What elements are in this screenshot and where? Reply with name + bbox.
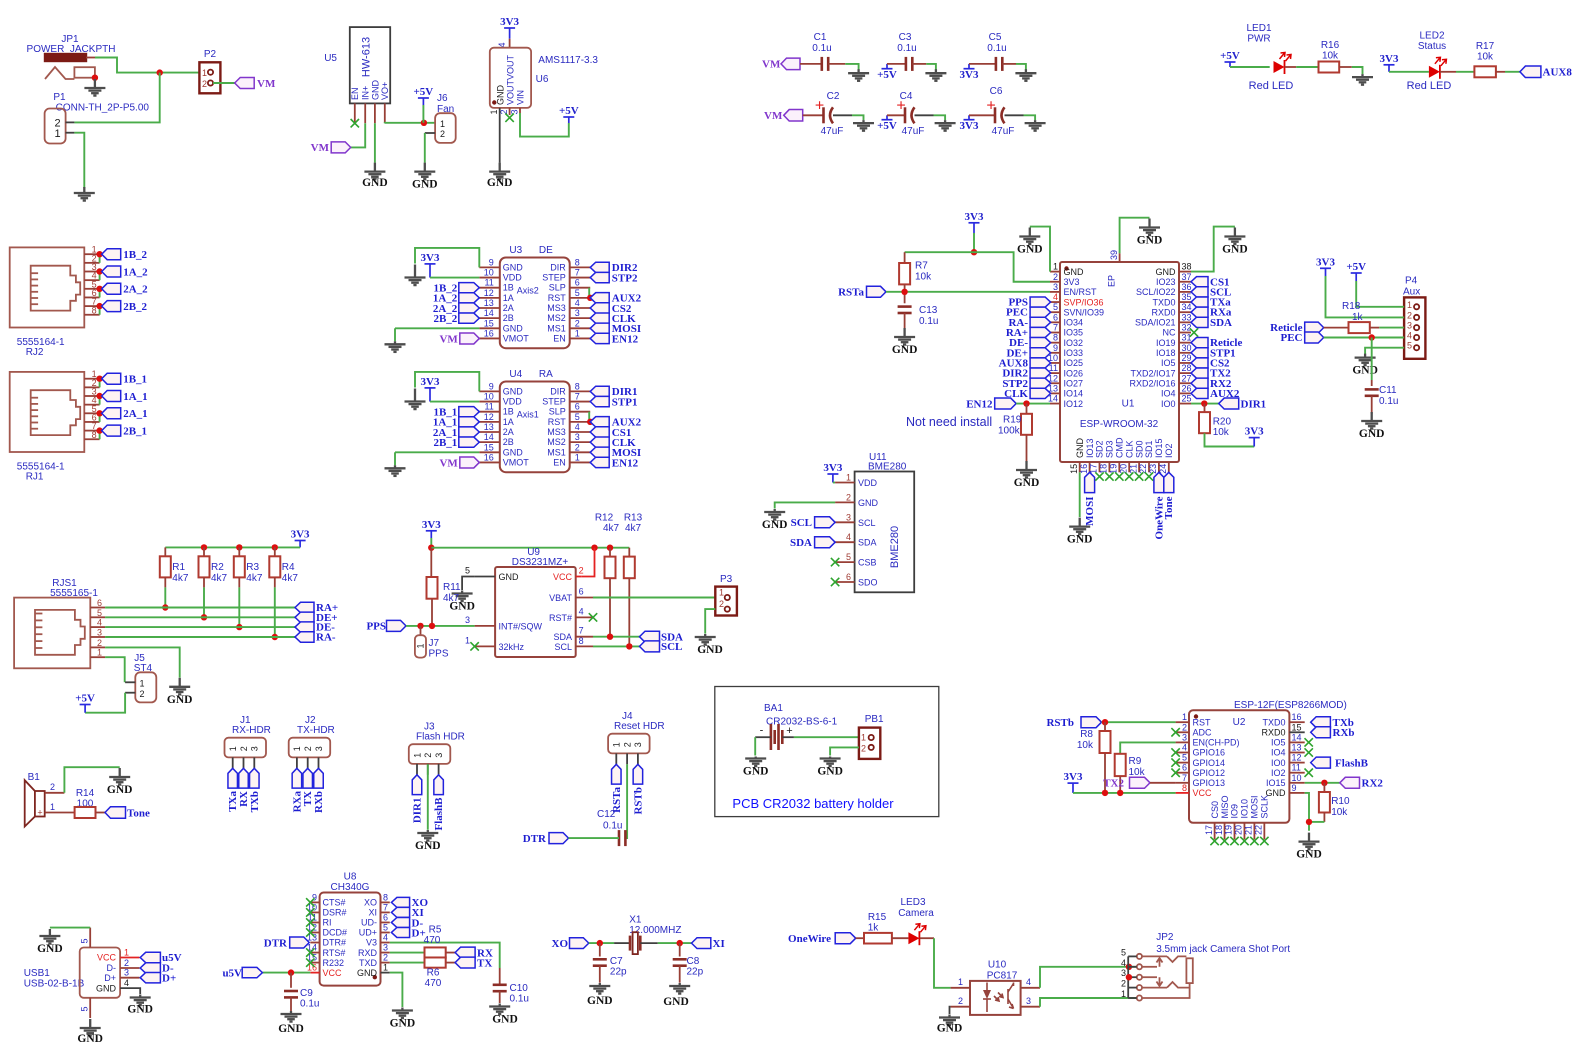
no-connect X on U1 pin 20 (1125, 472, 1133, 480)
svg-text:37: 37 (1182, 272, 1192, 282)
svg-text:CONN-TH_2P-P5.00: CONN-TH_2P-P5.00 (56, 103, 150, 114)
svg-text:1: 1 (719, 588, 724, 598)
svg-text:5: 5 (1407, 341, 1412, 351)
svg-text:4: 4 (1053, 292, 1058, 302)
junction RSTb R8 (1102, 719, 1108, 725)
svg-text:SD3: SD3 (1105, 440, 1115, 458)
svg-text:R4: R4 (282, 562, 295, 573)
svg-text:+5V: +5V (559, 105, 579, 117)
svg-text:7: 7 (575, 392, 580, 402)
svg-text:RSTb: RSTb (632, 787, 644, 815)
svg-text:R6: R6 (427, 968, 440, 979)
svg-text:15: 15 (1292, 722, 1302, 732)
net label TX at J2 (302, 768, 314, 806)
net label XO at U8 (391, 897, 428, 909)
wire J5 pin2 to +5V (85, 693, 125, 713)
junction JP1 switch (92, 75, 98, 81)
svg-text:9: 9 (489, 381, 494, 391)
svg-text:5: 5 (1121, 947, 1126, 957)
svg-text:27: 27 (1182, 373, 1192, 383)
ground C1 (848, 69, 869, 81)
svg-text:2A_1: 2A_1 (123, 408, 147, 420)
svg-text:22p: 22p (687, 967, 704, 978)
svg-text:GND: GND (167, 694, 193, 706)
no-connect X on U2 GPIO16 (1171, 748, 1179, 756)
svg-text:+: + (896, 97, 905, 114)
svg-text:+5V: +5V (75, 693, 95, 705)
svg-text:0.1u: 0.1u (1379, 396, 1398, 407)
svg-text:4: 4 (1026, 977, 1031, 987)
junction R9 3V3 (1117, 790, 1123, 796)
svg-text:10k: 10k (1331, 807, 1348, 818)
regulator module U5 HW-613 (324, 27, 390, 123)
IC U8 CH340G (307, 872, 390, 986)
net label DE+ at U1 (1006, 347, 1050, 359)
wire U3 SLP to RST (588, 288, 590, 298)
svg-text:VM: VM (311, 142, 330, 154)
net label 2A_1 (433, 427, 479, 439)
net label PPS at U1 (1008, 297, 1050, 309)
junction JP2 pin3 (1126, 974, 1132, 980)
svg-text:5: 5 (465, 566, 470, 576)
net label SDA at U1 (1191, 317, 1232, 329)
svg-text:1: 1 (97, 648, 102, 658)
svg-text:7: 7 (1182, 773, 1187, 783)
wire +5V to P4 pin1 (1356, 281, 1404, 307)
svg-text:2B: 2B (503, 313, 514, 323)
svg-text:X1: X1 (629, 915, 642, 926)
svg-text:22: 22 (1254, 825, 1264, 835)
net label D- at USB1 (140, 963, 174, 975)
ground U8 (392, 1008, 413, 1019)
ground B1 (109, 768, 130, 785)
net label STP2 at U1 (1002, 378, 1050, 390)
no-connect X on U5 EN (351, 119, 359, 127)
wire C3 to ground (926, 64, 936, 70)
svg-text:34: 34 (1182, 302, 1192, 312)
svg-text:RA-: RA- (316, 632, 336, 644)
net label STP2 at U3 (590, 272, 638, 284)
IC U9 DS3231MZ+ (465, 547, 593, 657)
wire 3V3 to U2 VCC (1073, 792, 1176, 794)
wire U1 pin38 GND to ground (1191, 227, 1235, 272)
ground U2 (1299, 833, 1320, 850)
svg-text:GND: GND (370, 80, 380, 101)
svg-text:3V3: 3V3 (1064, 771, 1083, 783)
svg-text:J7: J7 (429, 638, 440, 649)
svg-text:DIR1: DIR1 (1241, 398, 1267, 410)
resistor R8 10k (1077, 722, 1111, 793)
junction RJ2 pin 5 (96, 286, 102, 292)
power 3V3 at U4 (425, 388, 436, 402)
svg-text:SCL: SCL (554, 642, 572, 652)
svg-text:+5V: +5V (877, 120, 897, 132)
svg-text:GND: GND (937, 1023, 963, 1035)
optocoupler U10 PC817 (951, 960, 1040, 1015)
svg-text:EP: EP (1107, 275, 1117, 287)
svg-text:Tone: Tone (1163, 496, 1175, 519)
net label RA- at U1 (1008, 317, 1050, 329)
svg-text:7: 7 (383, 902, 388, 912)
no-connect X on U9 32kHz (470, 642, 478, 650)
svg-text:RSTb: RSTb (1046, 717, 1074, 729)
svg-text:VDD: VDD (503, 273, 523, 283)
wire U5 GND down (374, 123, 376, 162)
wire J6 pin2 to ground (424, 133, 426, 163)
wire P4 pin5 to ground (1365, 348, 1404, 354)
wire 3V3 to U4 VDD (430, 401, 479, 403)
connector J5 ST4 (125, 653, 156, 702)
svg-text:3: 3 (1407, 321, 1412, 331)
svg-text:3: 3 (1121, 968, 1126, 978)
resistor R18 1k (1324, 301, 1380, 333)
wire U4 SLP to RST (588, 412, 590, 422)
svg-text:3V3: 3V3 (1245, 426, 1264, 438)
net label RXb at J2 (313, 768, 325, 813)
net label SDA at U11 (790, 537, 835, 549)
ground U1 EP (1139, 219, 1160, 236)
wire J4 pin2 to C12 (625, 764, 627, 838)
connector RJ2 5555164-1 (10, 245, 100, 358)
svg-text:2: 2 (1182, 722, 1187, 732)
svg-text:PC817: PC817 (987, 971, 1018, 982)
svg-text:6: 6 (1182, 763, 1187, 773)
svg-text:IO19: IO19 (1156, 338, 1176, 348)
svg-text:1: 1 (612, 742, 622, 747)
svg-text:C5: C5 (989, 32, 1002, 43)
svg-text:D+: D+ (162, 972, 176, 984)
svg-text:IO14: IO14 (1064, 389, 1084, 399)
svg-text:SDO: SDO (858, 578, 878, 588)
svg-text:4: 4 (575, 422, 580, 432)
svg-text:3V3: 3V3 (422, 519, 441, 531)
net label CLK at U1 (1004, 388, 1050, 400)
svg-text:3V3: 3V3 (960, 69, 979, 81)
ground C2 (853, 120, 874, 131)
wire U6 VIN to +5V (520, 113, 569, 137)
svg-text:GND: GND (817, 766, 843, 778)
svg-text:IO5: IO5 (1161, 358, 1176, 368)
svg-text:4k7: 4k7 (246, 573, 263, 584)
svg-text:RXD: RXD (358, 948, 378, 958)
svg-text:2B_2: 2B_2 (123, 301, 147, 313)
svg-text:R5: R5 (429, 925, 442, 936)
svg-text:9: 9 (489, 257, 494, 267)
svg-text:12: 12 (484, 288, 494, 298)
svg-text:1A: 1A (503, 293, 514, 303)
svg-text:15: 15 (1069, 464, 1079, 474)
svg-text:U5: U5 (324, 53, 337, 64)
svg-text:1: 1 (861, 733, 866, 743)
svg-text:1A_1: 1A_1 (123, 391, 147, 403)
svg-text:TXD: TXD (359, 958, 378, 968)
no-connect X on U1 pin 21 (1135, 472, 1143, 480)
svg-text:Status: Status (1418, 41, 1446, 52)
svg-text:2: 2 (140, 689, 145, 699)
svg-text:VCC: VCC (323, 968, 343, 978)
svg-text:MISO: MISO (1220, 795, 1230, 818)
no-connect X on U2 pin 17 (1210, 837, 1218, 845)
resistor R15 1k (856, 912, 909, 944)
svg-text:TX2: TX2 (1103, 778, 1124, 790)
svg-text:EN: EN (350, 87, 360, 100)
power 3V3 at U11 (827, 474, 838, 483)
svg-text:R3: R3 (246, 562, 259, 573)
ground U6 (489, 163, 510, 180)
svg-text:2A: 2A (503, 303, 514, 313)
svg-text:PCB CR2032 battery holder: PCB CR2032 battery holder (732, 796, 894, 811)
svg-text:10k: 10k (1129, 767, 1146, 778)
junction RJ1 pin 5 (96, 410, 102, 416)
junction RJ2 pin 3 (96, 268, 102, 274)
svg-text:GND: GND (77, 1033, 103, 1045)
svg-text:EN(CH-PD): EN(CH-PD) (1193, 738, 1240, 748)
net label 1A_2 (433, 293, 479, 305)
svg-text:2B_1: 2B_1 (433, 437, 457, 449)
wire LED3 to U10 pin1 (934, 938, 951, 988)
svg-text:8: 8 (579, 636, 584, 646)
svg-text:ADC: ADC (1193, 728, 1213, 738)
svg-text:4k7: 4k7 (211, 573, 228, 584)
svg-text:0.1u: 0.1u (897, 43, 916, 54)
svg-text:29: 29 (1182, 353, 1192, 363)
svg-text:12: 12 (1292, 753, 1302, 763)
svg-text:30: 30 (1182, 343, 1192, 353)
svg-text:1k: 1k (868, 923, 880, 934)
svg-text:Camera: Camera (898, 908, 934, 919)
svg-text:Axis1: Axis1 (517, 410, 539, 420)
svg-text:17: 17 (1204, 825, 1214, 835)
svg-text:AUX8: AUX8 (1543, 67, 1573, 79)
svg-text:R12: R12 (595, 513, 614, 524)
svg-text:P4: P4 (1405, 276, 1418, 287)
svg-text:1: 1 (50, 802, 55, 812)
svg-text:0.1u: 0.1u (919, 316, 938, 327)
power 3V3 at C5 (964, 64, 975, 69)
junction VCC U9 (591, 545, 597, 551)
wire U5 VO+ to +5V and J6 pin1 (385, 122, 435, 124)
svg-text:32: 32 (1182, 323, 1192, 333)
net label u5V at U8 (222, 967, 262, 979)
svg-text:XO: XO (552, 938, 569, 950)
net label STP1 at U4 (590, 396, 637, 408)
svg-text:3V3: 3V3 (291, 529, 310, 541)
svg-text:IO25: IO25 (1064, 358, 1084, 368)
regulator U6 AMS1117-3.3 (489, 39, 598, 115)
ground U5 (364, 163, 385, 180)
svg-text:SCL: SCL (858, 518, 876, 528)
net label 2B_2 (102, 301, 148, 313)
junction 3V3 R4 (272, 544, 278, 550)
svg-text:IO9: IO9 (1230, 804, 1240, 819)
svg-text:Tone: Tone (127, 807, 150, 819)
net label TXa at U1 (1191, 297, 1231, 309)
svg-text:1: 1 (140, 679, 145, 689)
net label AUX8 (1520, 66, 1572, 79)
svg-text:3: 3 (124, 968, 129, 978)
svg-text:C2: C2 (827, 91, 840, 102)
net label XI at U8 (391, 907, 423, 919)
svg-text:1: 1 (292, 746, 302, 751)
net label 1B_1 (433, 407, 479, 419)
svg-text:SDA: SDA (553, 632, 572, 642)
svg-text:GND: GND (357, 968, 378, 978)
net label PEC at P4 (1281, 332, 1324, 344)
resistor R19 100k (998, 404, 1032, 461)
svg-text:31: 31 (1182, 333, 1192, 343)
svg-text:GND: GND (1137, 235, 1163, 247)
svg-text:Not need install: Not need install (906, 415, 992, 429)
svg-text:2: 2 (719, 599, 724, 609)
svg-text:LED2: LED2 (1419, 31, 1444, 42)
wire BA1 minus to ground (754, 737, 756, 755)
capacitor C3 (887, 32, 926, 71)
svg-text:1: 1 (575, 328, 580, 338)
svg-text:3: 3 (1053, 282, 1058, 292)
connector J2 TX-HDR (289, 715, 335, 768)
wire C4 to ground (934, 115, 946, 120)
svg-text:GND: GND (1222, 244, 1248, 256)
net label 1B_1 (102, 373, 147, 385)
wire R10 bottom to ground node (1309, 821, 1324, 823)
wire U3 GND pin15 to ground (395, 327, 479, 329)
svg-text:39: 39 (1109, 250, 1119, 260)
svg-text:+: + (986, 97, 995, 114)
svg-text:VBAT: VBAT (549, 593, 572, 603)
svg-text:2: 2 (124, 958, 129, 968)
svg-text:3: 3 (97, 628, 102, 638)
net label SCL at U9 (640, 641, 683, 653)
wire R18 to P4 pin3 (1379, 327, 1404, 329)
svg-text:1: 1 (1053, 262, 1058, 272)
wire U4 GND pin15 to ground (395, 451, 479, 453)
wire U5 IN+ to VM label (351, 123, 366, 147)
resistor R7 10k (899, 252, 932, 303)
no-connect X on U6 pin2 (505, 114, 513, 122)
wire U10 pin2 to ground (950, 1007, 951, 1014)
capacitor C12 (597, 809, 625, 846)
svg-text:EN12: EN12 (966, 398, 993, 410)
svg-text:C13: C13 (919, 305, 938, 316)
svg-text:14: 14 (1292, 732, 1302, 742)
svg-text:5: 5 (80, 1006, 90, 1011)
svg-text:13: 13 (1292, 743, 1302, 753)
svg-text:R14: R14 (76, 788, 95, 799)
svg-text:VM: VM (439, 333, 458, 345)
ground C10 (489, 1004, 510, 1015)
svg-text:SCL/IO22: SCL/IO22 (1136, 287, 1176, 297)
ground R19 (1016, 461, 1037, 478)
svg-text:TXD0: TXD0 (1262, 717, 1285, 727)
LED3 Camera (898, 897, 934, 945)
svg-text:DTR#: DTR# (323, 938, 347, 948)
net label RX at U8 (455, 947, 493, 959)
junction C9 VCC (288, 969, 294, 975)
net label CS2 at U3 (590, 303, 632, 315)
wire USB1 GND to ground (139, 988, 142, 994)
svg-text:4: 4 (579, 607, 584, 617)
net label D+ at U8 (391, 927, 425, 939)
resistor R9 10k (1115, 754, 1146, 793)
wire U8 V3 to C10 (390, 943, 500, 968)
svg-text:2: 2 (1121, 979, 1126, 989)
svg-text:GND: GND (362, 177, 388, 189)
ground U1 pin15 (1069, 518, 1090, 535)
svg-text:PWR: PWR (1247, 34, 1270, 45)
svg-text:RSTa: RSTa (838, 287, 864, 299)
net label RSTa at J4 (611, 764, 623, 813)
net label PPS (366, 620, 406, 632)
net label DE- (295, 622, 335, 634)
svg-text:R9: R9 (1129, 756, 1142, 767)
ground U3 pin15 (385, 341, 406, 352)
svg-text:R7: R7 (915, 261, 928, 272)
power 3V3 at R20 (1249, 438, 1260, 447)
svg-text:IO18: IO18 (1156, 348, 1176, 358)
svg-text:3: 3 (1026, 996, 1031, 1006)
wire RJ2 pins 5-6 (99, 289, 101, 298)
net label AUX2 at U4 (590, 417, 641, 429)
svg-text:MOSI: MOSI (1084, 497, 1096, 526)
svg-text:JP2: JP2 (1156, 932, 1174, 943)
connector P4 Aux (1403, 276, 1425, 359)
connector JP1 POWER_JACKPTH (27, 34, 116, 79)
wire P1 pin1 to ground (74, 133, 84, 188)
svg-text:CR2032-BS-6-1: CR2032-BS-6-1 (766, 717, 838, 728)
svg-text:CSB: CSB (858, 558, 877, 568)
net label CS2 at U1 (1191, 357, 1230, 369)
svg-text:3: 3 (510, 110, 520, 115)
svg-text:2: 2 (579, 566, 584, 576)
svg-text:C12: C12 (597, 809, 616, 820)
svg-text:2A_2: 2A_2 (123, 284, 148, 296)
net label CLK at U3 (590, 313, 636, 325)
wire RJ1 pins 3-4 (99, 396, 101, 405)
wire RJ1 pins 5-6 (99, 413, 101, 422)
svg-text:D-: D- (107, 963, 117, 973)
svg-text:U1: U1 (1122, 399, 1135, 410)
svg-text:3: 3 (575, 432, 580, 442)
no-connect X on U2 ADC (1171, 728, 1179, 736)
svg-text:U8: U8 (344, 872, 357, 883)
ground RJS1 pin2 (169, 678, 190, 695)
svg-text:8: 8 (383, 892, 388, 902)
junction R8 3V3 (1102, 790, 1108, 796)
no-connect X on U2 pin 21 (1250, 837, 1258, 845)
svg-text:DCD#: DCD# (323, 928, 348, 938)
svg-text:C7: C7 (610, 956, 623, 967)
wire C6 to ground (1024, 115, 1036, 120)
svg-text:GND: GND (499, 572, 520, 582)
no-connect X on U11 CSB (831, 558, 839, 566)
svg-text:C9: C9 (300, 988, 313, 999)
svg-text:GND: GND (1067, 534, 1093, 546)
wire +5V to LED1 (1230, 66, 1270, 68)
resistor R2 4k7 (199, 547, 228, 587)
svg-text:6: 6 (97, 598, 102, 608)
connector USB1 USB-02-B-1B (24, 928, 140, 1018)
net label XO at X1 (552, 938, 589, 950)
svg-text:2: 2 (846, 492, 851, 502)
wire PEC to P4 pin4 (1324, 337, 1404, 339)
resistor R10 10k (1319, 783, 1350, 822)
svg-text:4k7: 4k7 (282, 573, 299, 584)
wire C1 to ground (845, 64, 858, 70)
wire RJS1 pin4 to DE- (105, 626, 295, 628)
svg-text:IO15: IO15 (1266, 778, 1286, 788)
svg-text:1B: 1B (503, 283, 514, 293)
junction J7 PPS (417, 623, 423, 629)
